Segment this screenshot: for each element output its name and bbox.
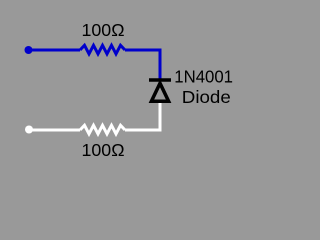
node: left terminal of top branch (blue dot) xyxy=(25,46,33,54)
wire: white, resistor R2 to diode anode (with corner) xyxy=(125,100,160,130)
resistor R2 100Ω (white zigzag) xyxy=(80,125,125,134)
node: left terminal of bottom branch (white dot) xyxy=(25,126,33,134)
diode D1 cathode bar xyxy=(149,78,171,82)
svg-text:Diode: Diode xyxy=(182,87,231,107)
diode D1 triangle (anode, pointing up) xyxy=(151,83,168,101)
svg-text:100Ω: 100Ω xyxy=(82,20,125,40)
wire: blue, resistor R1 to diode cathode (with corner) xyxy=(125,50,160,79)
wire: blue, terminal to resistor R1 xyxy=(29,49,80,52)
svg-text:1N4001: 1N4001 xyxy=(174,66,233,86)
wire: white, terminal to resistor R2 xyxy=(29,129,80,132)
svg-text:100Ω: 100Ω xyxy=(82,140,125,160)
resistor R1 100Ω (blue zigzag) xyxy=(80,45,125,54)
